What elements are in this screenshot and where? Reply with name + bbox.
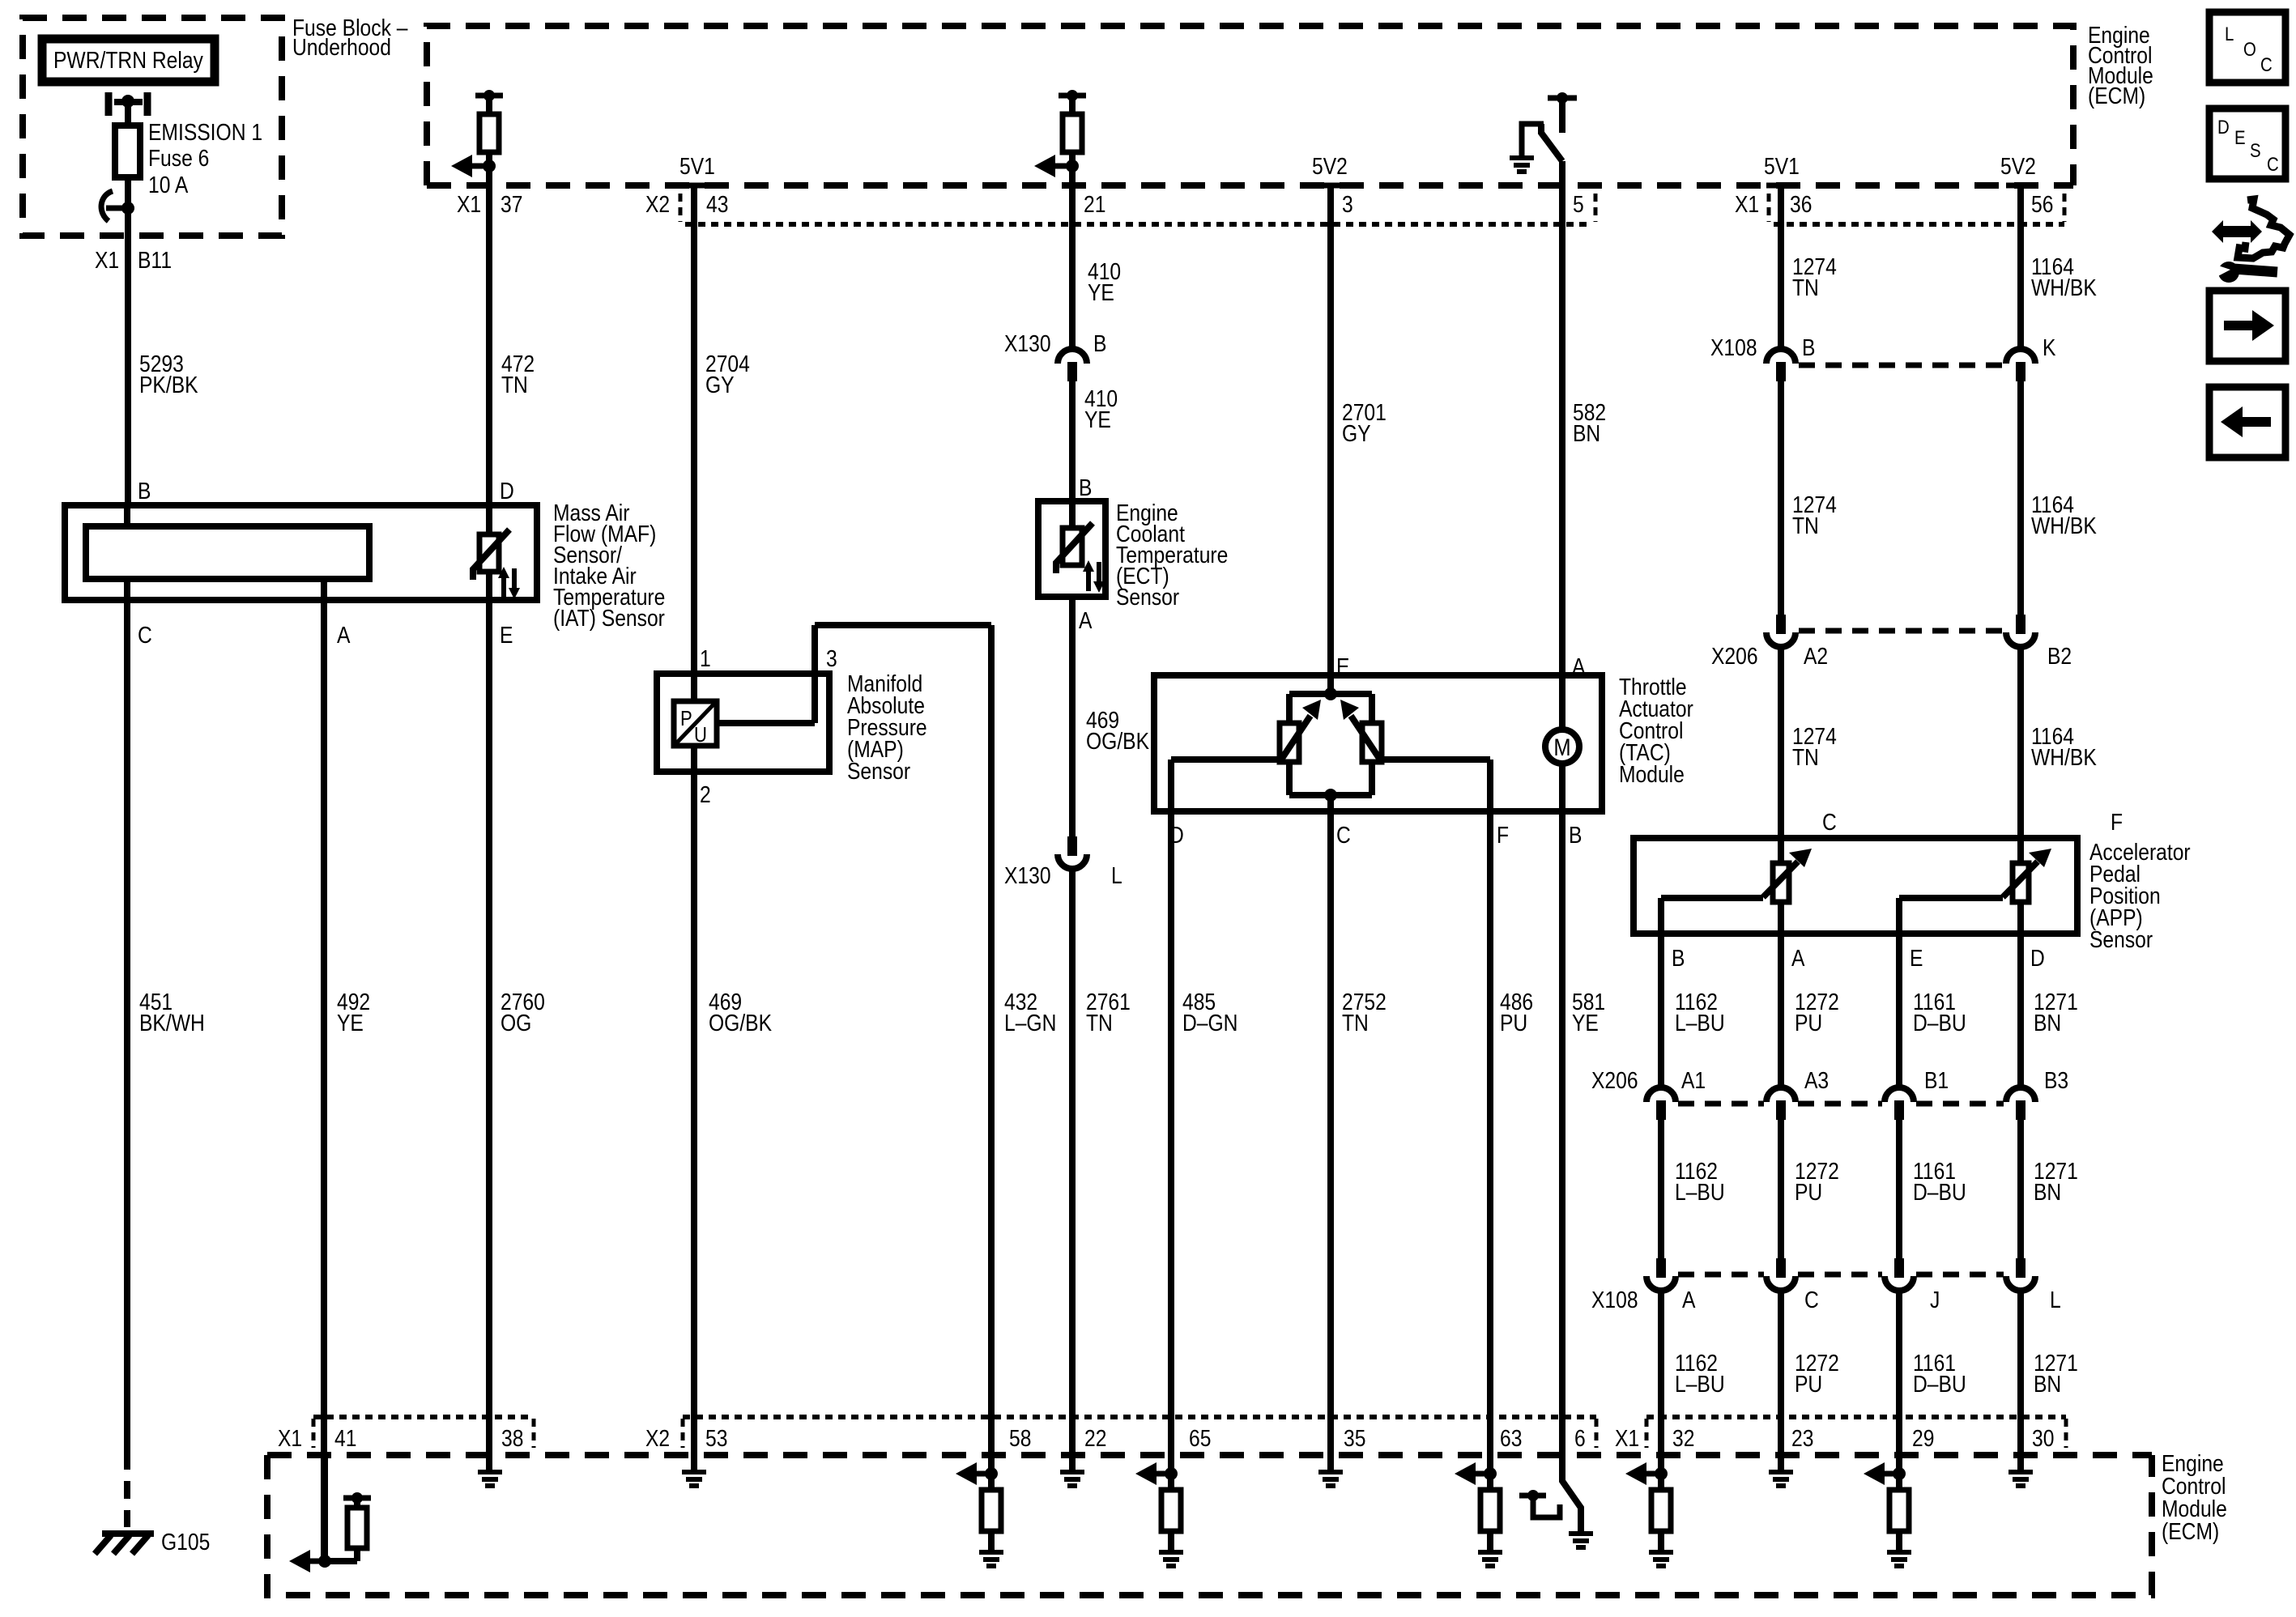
svg-text:29: 29 — [1912, 1425, 1934, 1451]
svg-text:D: D — [500, 478, 514, 504]
MAP sensor box — [657, 674, 829, 772]
svg-text:TN: TN — [501, 372, 528, 398]
fine dotted pin line bottom — [313, 1415, 534, 1419]
node relay output junction — [121, 95, 134, 108]
svg-text:D: D — [2030, 945, 2045, 971]
svg-text:TN: TN — [1792, 744, 1819, 770]
wire 1271 BN (X108 L to pin30) — [2017, 1291, 2024, 1471]
connector X206 A3 — [1766, 1087, 1795, 1102]
svg-text:WH/BK: WH/BK — [2031, 513, 2097, 538]
ECM internal pin65 pulldown — [1165, 1467, 1178, 1480]
svg-text:S: S — [2250, 139, 2261, 161]
svg-text:YE: YE — [1084, 406, 1111, 432]
TPS arrow 1 — [1280, 716, 1310, 762]
svg-text:B2: B2 — [2047, 643, 2072, 669]
svg-text:X2: X2 — [645, 191, 670, 217]
wire E inside MAF — [486, 572, 492, 600]
svg-text:3: 3 — [1342, 191, 1353, 217]
svg-text:A: A — [1079, 607, 1092, 633]
connector X206 B1 — [1885, 1087, 1914, 1102]
resistor internal pin21 — [1069, 96, 1076, 114]
svg-text:C: C — [138, 622, 152, 648]
wire 469 OG/BK (MAP 2 to pin53) — [691, 772, 697, 1471]
svg-text:GY: GY — [1342, 420, 1371, 446]
ECM internal pin6 switch — [1562, 1455, 1581, 1533]
svg-text:A2: A2 — [1804, 643, 1828, 669]
svg-text:B: B — [1093, 330, 1106, 356]
svg-text:Sensor: Sensor — [847, 758, 910, 784]
svg-text:D–BU: D–BU — [1913, 1371, 1966, 1397]
svg-text:2: 2 — [700, 781, 711, 807]
ECM internal rail bar (pin21) — [1059, 93, 1086, 99]
ECT temp arrows up/down — [1086, 570, 1091, 591]
ECM internal rail bar (pin5) — [1548, 96, 1577, 101]
svg-text:(ECM): (ECM) — [2088, 83, 2145, 109]
motor M (TAC) — [1559, 675, 1565, 730]
svg-text:PWR/TRN Relay: PWR/TRN Relay — [53, 47, 203, 73]
svg-text:D: D — [2217, 116, 2230, 138]
svg-text:Fuse 6: Fuse 6 — [148, 145, 209, 171]
connector X108 J — [1885, 1276, 1914, 1291]
svg-text:10 A: 10 A — [148, 172, 188, 198]
svg-text:G105: G105 — [161, 1529, 210, 1555]
svg-text:P: P — [680, 707, 692, 730]
svg-text:M: M — [1553, 734, 1570, 760]
svg-text:X1: X1 — [1615, 1425, 1639, 1451]
icon back arrow box — [2209, 387, 2285, 457]
wire B inside MAF — [124, 505, 130, 526]
ECM top dashed box — [427, 26, 2073, 185]
svg-text:D–BU: D–BU — [1913, 1010, 1966, 1036]
svg-text:A3: A3 — [1804, 1067, 1829, 1093]
svg-text:3: 3 — [826, 645, 837, 671]
ground pin23 (ECM) — [1769, 1470, 1793, 1474]
dashed link X108 B-K — [1799, 363, 2004, 368]
svg-text:5: 5 — [1573, 191, 1584, 217]
svg-text:5V1: 5V1 — [1764, 153, 1800, 179]
connector X108 K — [2006, 349, 2035, 364]
svg-text:21: 21 — [1084, 191, 1105, 217]
svg-text:B: B — [1802, 334, 1815, 360]
wire 1164 WH/BK (X108 K to X206 B2) — [2017, 381, 2024, 615]
wire 1271 BN (APP D to X206 B3) — [2017, 934, 2024, 1087]
svg-text:A: A — [337, 622, 350, 648]
wire 432 L-GN (MAP 3 to pin58) — [988, 625, 995, 1475]
svg-text:X130: X130 — [1004, 330, 1051, 356]
svg-text:J: J — [1930, 1287, 1940, 1313]
svg-text:OG/BK: OG/BK — [709, 1010, 772, 1036]
svg-text:E: E — [1910, 945, 1923, 971]
svg-text:BN: BN — [2034, 1371, 2061, 1397]
TPS wiper lines — [1171, 756, 1282, 763]
svg-text:5V2: 5V2 — [1312, 153, 1348, 179]
ground pin22 (ECM) — [1060, 1470, 1084, 1474]
svg-text:D–GN: D–GN — [1182, 1010, 1237, 1036]
ground G105 chassis — [102, 1530, 154, 1537]
svg-text:A: A — [1791, 945, 1804, 971]
ground pin53 (ECM) — [682, 1470, 706, 1474]
svg-text:OG/BK: OG/BK — [1086, 728, 1149, 754]
svg-text:WH/BK: WH/BK — [2031, 274, 2097, 300]
wire 410 YE (pin21 to X130 B) — [1069, 188, 1076, 349]
TAC TPS bridge frame — [1327, 675, 1334, 694]
svg-text:TN: TN — [1792, 513, 1819, 538]
wire C from MAF — [124, 579, 130, 600]
svg-text:GY: GY — [705, 372, 735, 398]
svg-text:YE: YE — [1572, 1010, 1599, 1036]
wire 1274 TN (X206 A2 to APP C) — [1778, 647, 1784, 841]
wire 1164 WH/BK (pin56 to X108 K) — [2017, 185, 2024, 349]
ECM internal pin29 pulldown — [1893, 1467, 1906, 1480]
svg-text:BN: BN — [1573, 420, 1600, 446]
icon wrench adjust — [2212, 220, 2262, 243]
svg-text:X108: X108 — [1710, 334, 1757, 360]
svg-text:WH/BK: WH/BK — [2031, 744, 2097, 770]
MAP internal wire to pin3 — [717, 720, 815, 726]
wire 581 YE (TAC B to pin6) — [1559, 811, 1565, 1481]
svg-text:L–BU: L–BU — [1675, 1010, 1725, 1036]
svg-text:X1: X1 — [278, 1425, 302, 1451]
APP pot 1 — [1778, 838, 1784, 863]
svg-text:OG: OG — [501, 1010, 531, 1036]
wire 1161 D-BU (X206 B1 to X108 J) — [1896, 1120, 1902, 1258]
svg-text:B: B — [1079, 474, 1092, 500]
MAF/IAT sensor box — [65, 505, 537, 600]
wire TAC C out — [1327, 795, 1334, 1471]
svg-text:Underhood: Underhood — [292, 34, 391, 60]
svg-text:C: C — [1336, 822, 1351, 848]
svg-text:L–BU: L–BU — [1675, 1179, 1725, 1205]
thermistor (IAT) in MAF — [486, 505, 492, 534]
switch blade pin5 — [1541, 124, 1562, 161]
connector X206 B2 — [2006, 632, 2035, 647]
wire 1162 L-BU (X108 A to pin32) — [1658, 1291, 1664, 1475]
ECM bottom dashed box — [267, 1455, 2152, 1595]
resistor internal pin37 — [486, 96, 492, 114]
node pin37 junction + arrow — [483, 160, 496, 172]
svg-text:C: C — [1822, 809, 1837, 835]
wire pin5 to box edge — [1559, 161, 1565, 188]
wire relay to fuse — [125, 98, 131, 126]
connector X108 A — [1646, 1276, 1676, 1291]
svg-text:PU: PU — [1795, 1010, 1822, 1036]
svg-text:1: 1 — [700, 645, 711, 671]
svg-text:PU: PU — [1795, 1179, 1822, 1205]
wire fuse to contact — [125, 177, 131, 209]
svg-text:B: B — [1672, 945, 1685, 971]
svg-text:EMISSION 1: EMISSION 1 — [148, 119, 262, 145]
wire MAP pin2 down — [691, 746, 697, 772]
wire 1271 BN (X206 B3 to X108 L) — [2017, 1120, 2024, 1258]
wire 2701 GY (pin3 to TAC E) — [1327, 185, 1334, 679]
svg-text:TN: TN — [1792, 274, 1819, 300]
wire 492 YE (MAF A to pin41) — [321, 579, 327, 1563]
svg-text:X2: X2 — [645, 1425, 670, 1451]
relay contact bracket — [105, 92, 113, 116]
svg-text:56: 56 — [2031, 191, 2053, 217]
svg-text:58: 58 — [1009, 1425, 1031, 1451]
tick pin36 — [1766, 183, 1795, 189]
wire 1161 D-BU (APP E to X206 B1) — [1896, 934, 1902, 1087]
wire 485 D-GN (TAC D to pin65) — [1168, 811, 1174, 1475]
icon next arrow box — [2209, 291, 2285, 361]
svg-text:38: 38 — [501, 1425, 523, 1451]
svg-text:22: 22 — [1084, 1425, 1106, 1451]
APP pot 2 — [2017, 838, 2024, 863]
svg-text:F: F — [1497, 822, 1509, 848]
fine dotted pin line top — [685, 222, 1592, 227]
svg-text:X1: X1 — [457, 191, 481, 217]
relay K1 PWR/TRN Relay box — [42, 39, 215, 82]
svg-text:(ECM): (ECM) — [2162, 1518, 2219, 1544]
svg-text:65: 65 — [1189, 1425, 1211, 1451]
svg-text:B: B — [138, 478, 151, 504]
connector X130 B — [1058, 349, 1087, 364]
ECM internal rail bar (pin37) — [475, 93, 503, 99]
svg-text:A1: A1 — [1681, 1067, 1706, 1093]
relay contact hook — [101, 191, 113, 221]
svg-text:X206: X206 — [1591, 1067, 1638, 1093]
connector X108 L — [2006, 1276, 2035, 1291]
switch hook + ground (pin5) — [1522, 124, 1544, 156]
wire 451 BK/WH (MAF C to G105) — [124, 600, 130, 1452]
svg-text:L: L — [1111, 862, 1122, 888]
wire 486 PU (TAC F to pin63) — [1487, 811, 1493, 1475]
wire 1164 WH/BK (X206 B2 to APP F) — [2017, 647, 2024, 841]
svg-text:X1: X1 — [1735, 191, 1759, 217]
connector X206 B3 — [2006, 1087, 2035, 1102]
svg-text:30: 30 — [2032, 1425, 2054, 1451]
TPS resistor 2 — [1362, 723, 1382, 762]
svg-text:E: E — [500, 622, 513, 648]
ground pin30 (ECM) — [2008, 1470, 2033, 1474]
svg-text:B: B — [1569, 822, 1582, 848]
dashed links X108 row — [1678, 1272, 1764, 1278]
svg-text:5V1: 5V1 — [679, 153, 715, 179]
fuse F6 EMISSION 1 10A — [115, 126, 140, 177]
svg-text:C: C — [2260, 53, 2273, 75]
svg-text:C: C — [1804, 1287, 1819, 1313]
svg-text:L: L — [2050, 1287, 2061, 1313]
svg-text:F: F — [2111, 809, 2123, 835]
svg-text:K: K — [2043, 334, 2055, 360]
wire 1162 L-BU (APP B to X206 A1) — [1658, 934, 1664, 1087]
connector X206 A1 — [1646, 1087, 1676, 1102]
connector X108 C — [1766, 1276, 1795, 1291]
svg-text:B3: B3 — [2044, 1067, 2068, 1093]
MAF inner element rect — [86, 526, 369, 579]
svg-text:C: C — [2267, 153, 2279, 175]
svg-text:BK/WH: BK/WH — [139, 1010, 205, 1036]
wire 472 TN (pin37 to MAF D) — [486, 188, 492, 505]
svg-text:63: 63 — [1500, 1425, 1522, 1451]
ECM internal pin63 pulldown — [1484, 1467, 1497, 1480]
wire 2761 TN (X130 L to pin22) — [1069, 869, 1076, 1471]
wire 1274 TN (X108 B to X206 A2) — [1778, 381, 1784, 615]
svg-text:U: U — [694, 723, 707, 747]
dashed links X206 row — [1678, 1101, 1764, 1107]
svg-text:A: A — [1682, 1287, 1695, 1313]
svg-text:PK/BK: PK/BK — [139, 372, 198, 398]
svg-text:X1: X1 — [95, 247, 119, 273]
svg-text:TN: TN — [1342, 1010, 1369, 1036]
svg-text:32: 32 — [1672, 1425, 1694, 1451]
svg-text:37: 37 — [501, 191, 522, 217]
tick pin43 — [1316, 183, 1345, 189]
TPS resistor 1 — [1280, 723, 1299, 762]
svg-text:23: 23 — [1791, 1425, 1813, 1451]
MAP P/U transducer — [674, 701, 717, 746]
svg-text:YE: YE — [1088, 279, 1114, 305]
svg-text:X130: X130 — [1004, 862, 1051, 888]
switch stub pin5 — [1559, 98, 1565, 133]
svg-text:53: 53 — [705, 1425, 727, 1451]
wire 469 OG/BK (ECT A to X130 L) — [1069, 597, 1076, 836]
tick pin56 — [2006, 183, 2035, 189]
svg-text:X206: X206 — [1711, 643, 1758, 669]
tick pin43b — [679, 183, 709, 189]
ECT sensor box — [1038, 501, 1105, 597]
thermistor (ECT) — [1069, 501, 1076, 528]
svg-text:43: 43 — [706, 191, 728, 217]
svg-text:Module: Module — [1619, 761, 1685, 787]
ECM internal pin58 pulldown — [985, 1467, 998, 1480]
svg-text:(IAT) Sensor: (IAT) Sensor — [553, 605, 665, 631]
svg-text:O: O — [2243, 38, 2256, 60]
svg-text:PU: PU — [1500, 1010, 1527, 1036]
svg-text:5V2: 5V2 — [2000, 153, 2036, 179]
wire 1161 D-BU (X108 J to pin29) — [1896, 1291, 1902, 1475]
wire pin37 to box edge — [486, 166, 492, 188]
svg-text:BN: BN — [2034, 1179, 2061, 1205]
svg-text:B1: B1 — [1924, 1067, 1949, 1093]
wire 1272 PU (X108 C to pin23) — [1778, 1291, 1784, 1471]
ECM internal pin41 sense resistor — [322, 1457, 328, 1561]
wire 2704 GY (pin43 to MAP 1) — [691, 185, 697, 701]
IAT temp arrows up/down — [501, 577, 506, 598]
wire 1274 TN (pin36 to X108 B) — [1778, 185, 1784, 349]
APP sensor box — [1634, 838, 2077, 934]
svg-text:YE: YE — [337, 1010, 364, 1036]
svg-text:TN: TN — [1086, 1010, 1113, 1036]
svg-text:36: 36 — [1790, 191, 1812, 217]
wire pin21 to box edge — [1069, 166, 1076, 188]
svg-text:6: 6 — [1574, 1425, 1586, 1451]
svg-text:E: E — [2234, 126, 2246, 148]
icon LOC box — [2209, 12, 2285, 83]
ECM internal pin32 pulldown — [1655, 1467, 1668, 1480]
wire 1272 PU (X206 A3 to X108 C) — [1778, 1120, 1784, 1258]
svg-text:D–BU: D–BU — [1913, 1179, 1966, 1205]
svg-text:L: L — [2225, 23, 2234, 45]
wire 410 YE (X130 B to ECT B) — [1069, 381, 1076, 504]
connector X108 B — [1766, 349, 1795, 364]
wire 2760 OG (MAF E to pin38) — [486, 600, 492, 1471]
svg-text:41: 41 — [334, 1425, 356, 1451]
connector X206 A2 — [1766, 632, 1795, 647]
svg-text:L–BU: L–BU — [1675, 1371, 1725, 1397]
svg-text:Sensor: Sensor — [2089, 926, 2153, 952]
svg-text:Sensor: Sensor — [1116, 584, 1179, 610]
svg-text:35: 35 — [1344, 1425, 1365, 1451]
ground pin38 (ECM) — [478, 1470, 502, 1474]
wire 1272 PU (APP A to X206 A3) — [1778, 934, 1784, 1087]
wire 1162 L-BU (X206 A1 to X108 A) — [1658, 1120, 1664, 1258]
ground pin35 (ECM) — [1318, 1470, 1343, 1474]
svg-text:BN: BN — [2034, 1010, 2061, 1036]
svg-text:X108: X108 — [1591, 1287, 1638, 1313]
icon DESC box — [2209, 109, 2285, 179]
dashed link X206 A2-B2 — [1799, 628, 2004, 634]
svg-text:PU: PU — [1795, 1371, 1822, 1397]
TPS arrow 2 — [1351, 716, 1382, 762]
fuse block underhood dashed box — [23, 18, 282, 236]
svg-text:L–GN: L–GN — [1004, 1010, 1056, 1036]
TAC module box — [1154, 675, 1602, 811]
wire 582 BN (pin5 to TAC A) — [1559, 188, 1565, 679]
wire 5293 down to MAF pin B — [125, 208, 131, 505]
node pin21 junction + arrow — [1066, 160, 1079, 172]
connector X130 L — [1058, 854, 1087, 869]
svg-text:B11: B11 — [138, 247, 172, 273]
